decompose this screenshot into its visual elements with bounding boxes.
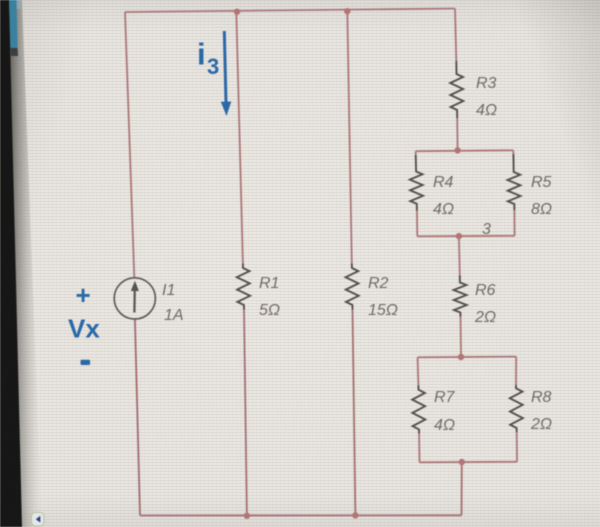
wire: R3 to box node bbox=[456, 118, 458, 151]
wire: bottom rail bbox=[140, 514, 462, 516]
node dot bottom R1 bbox=[244, 513, 250, 519]
wire: R5 top stub bbox=[512, 150, 514, 155]
resistor R4 bbox=[410, 155, 423, 211]
wire: top rail bbox=[125, 9, 455, 13]
wire: R4R5 box bottom rail bbox=[417, 235, 514, 238]
resistor R3 bbox=[450, 61, 463, 118]
node dot bottom R2 bbox=[352, 512, 358, 518]
wire: R4 bottom stub bbox=[416, 211, 418, 237]
teal glow top bbox=[17, 0, 22, 9]
grain bbox=[0, 0, 1, 1]
label minus bbox=[81, 360, 91, 365]
current source I1 bbox=[114, 278, 155, 319]
wire: R1 branch upper bbox=[236, 12, 243, 264]
resistor R8 bbox=[510, 385, 523, 432]
wire: R6 to R7R8 box bbox=[460, 317, 463, 358]
wire: box to bottom rail bbox=[461, 462, 463, 515]
wire: left branch lower (source bottom lead) bbox=[135, 319, 140, 516]
wire: R1 branch lower bbox=[244, 310, 247, 516]
wire: R2 branch upper bbox=[347, 11, 352, 263]
wire: R7R8 box bottom rail bbox=[420, 461, 518, 464]
node dot R7R8 top bbox=[458, 354, 464, 360]
wire: R5 bottom stub bbox=[513, 210, 515, 236]
resistor R2 bbox=[346, 264, 359, 310]
node dot top R2 bbox=[344, 8, 350, 14]
monitor black bar left edge bbox=[0, 0, 22, 527]
node dot R3 bottom bbox=[454, 147, 460, 153]
dark patch below teal strip bbox=[11, 48, 19, 56]
arrow i3 bbox=[224, 31, 226, 103]
wire: R2 branch lower bbox=[353, 310, 356, 516]
node dot 3 (box bottom) bbox=[456, 233, 462, 239]
resistor R6 bbox=[454, 276, 467, 317]
node dot R7R8 bottom bbox=[459, 459, 465, 465]
teal strip top-left bbox=[9, 0, 18, 48]
wire: R3 branch upper bbox=[455, 9, 456, 62]
wire: R8 top stub bbox=[515, 357, 517, 385]
wire: R7R8 box top rail bbox=[418, 356, 517, 359]
resistor R5 bbox=[508, 154, 521, 210]
node dot top R1 bbox=[234, 9, 240, 15]
wire: R7 bottom stub bbox=[418, 434, 420, 463]
wire: R4R5 box top rail bbox=[416, 149, 514, 152]
scrollbar button icon bottom-left bbox=[32, 513, 45, 527]
wire: left branch upper (source top lead) bbox=[125, 12, 134, 278]
resistor R7 bbox=[412, 386, 425, 434]
wire: R8 bottom stub bbox=[516, 432, 518, 462]
wire: R4 top stub bbox=[415, 151, 417, 156]
resistor R1 bbox=[237, 264, 250, 310]
wire: node3 to R6 bbox=[458, 236, 461, 275]
wire: R7 top stub bbox=[417, 357, 420, 385]
screen bezel shadow on left bbox=[0, 0, 1, 1]
